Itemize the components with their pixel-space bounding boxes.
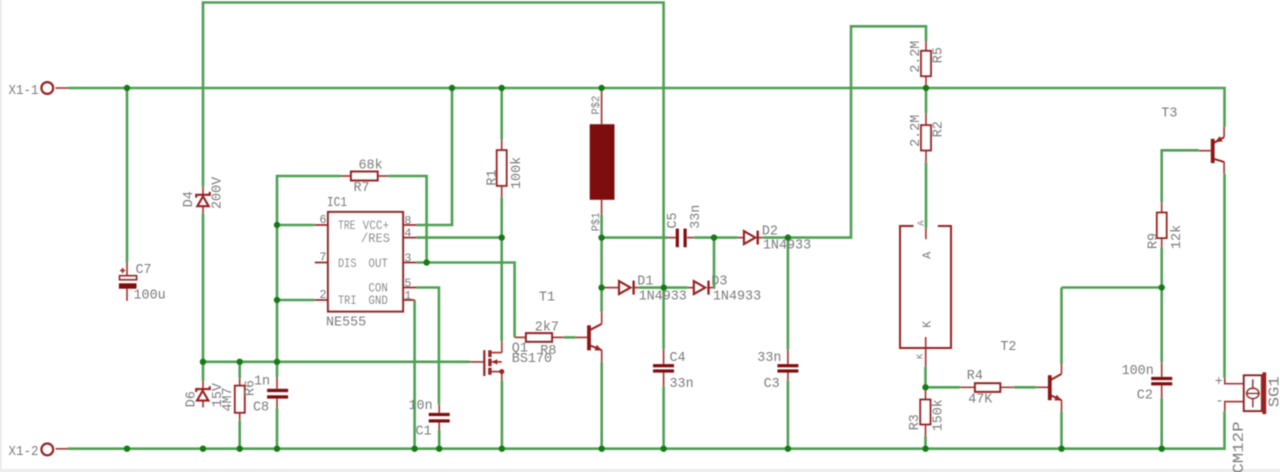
wire R9 leads xyxy=(1161,203,1163,247)
junction rail2-D6 xyxy=(200,446,206,452)
wire bottom rail X1-2 net xyxy=(68,411,1225,448)
junction TRI bus pin2 xyxy=(274,297,280,303)
wire R6 bottom to rail xyxy=(238,420,241,448)
junction arrester-R4-R3 xyxy=(922,384,928,390)
wire P$1 bottom node xyxy=(600,215,603,238)
junction timing node R6 xyxy=(237,359,243,365)
svg-text:7: 7 xyxy=(319,251,326,265)
wire D3 leads xyxy=(688,287,714,289)
wire T3 collector lead xyxy=(1223,162,1225,174)
wire T2 emitter to rail xyxy=(1060,412,1063,449)
wire T2 collector up xyxy=(1060,288,1063,365)
wire R8 leads xyxy=(515,336,564,338)
svg-text:33n: 33n xyxy=(670,377,694,392)
svg-text:F/CM12P: F/CM12P xyxy=(1231,422,1248,472)
wire C5 leads xyxy=(668,237,694,239)
wire timing node horizontal to Q1 gate xyxy=(203,360,470,363)
wire C4 leads xyxy=(663,349,665,387)
svg-text:100n: 100n xyxy=(1122,364,1154,379)
capacitor C2 plates xyxy=(1151,377,1172,386)
wire node to C5 left xyxy=(602,236,668,239)
junction R1 bottom /RES xyxy=(499,234,505,240)
wire T1 collector lead xyxy=(601,312,603,324)
svg-text:A: A xyxy=(916,220,926,226)
wire C8 leads xyxy=(276,377,278,408)
wire top loop D4 to D1/D3 node xyxy=(203,3,664,350)
svg-text:GND: GND xyxy=(368,294,388,308)
svg-text:C1: C1 xyxy=(416,425,432,440)
wire C2 leads xyxy=(1161,362,1163,398)
resistor R7 body xyxy=(351,172,378,181)
svg-text:T3: T3 xyxy=(1161,107,1177,122)
svg-text:C3: C3 xyxy=(764,377,780,392)
wire C7 top drop xyxy=(126,88,129,263)
op-amp/IC IC1 NE555 box xyxy=(328,212,403,312)
junction rail-R1 xyxy=(499,85,505,91)
wire R9 bottom to C2 top xyxy=(1160,247,1163,362)
wire R8 to T1 base xyxy=(564,336,576,339)
junction rail2-C2 xyxy=(1159,446,1165,452)
svg-text:-: - xyxy=(1216,395,1224,410)
wire SG1 minus lead xyxy=(1225,402,1244,412)
svg-text:D4: D4 xyxy=(182,191,197,207)
svg-text:+: + xyxy=(1215,375,1223,390)
diode D1 xyxy=(619,281,634,295)
resistor R6 body xyxy=(235,386,245,413)
connector pad X1-2 xyxy=(41,444,53,456)
junction rail-C7 xyxy=(124,85,130,91)
wire T2 emitter lead xyxy=(1061,400,1063,411)
svg-text:NE555: NE555 xyxy=(326,316,366,331)
wire node to T1 collector xyxy=(600,238,603,312)
wire rail to IC1 pin 8 xyxy=(417,88,453,225)
svg-text:VCC+: VCC+ xyxy=(363,219,390,233)
wire Q1 source lead xyxy=(501,372,503,381)
IC1 pin stubs right (8,4,3,5,1) xyxy=(403,225,417,300)
wire R7 right down to OUT xyxy=(388,176,427,263)
wire R1 leads xyxy=(501,140,503,198)
svg-text:2.2M: 2.2M xyxy=(909,41,924,73)
wire R3 leads xyxy=(925,388,927,436)
junction rail2-T1 emitter xyxy=(599,446,605,452)
svg-text:C7: C7 xyxy=(136,263,152,278)
wire D4 to D6 vertical xyxy=(202,214,205,382)
svg-text:47K: 47K xyxy=(968,393,993,408)
capacitor C4 plates xyxy=(653,364,674,373)
transistor T3 pnp xyxy=(1213,136,1224,163)
junction D1-D3 node xyxy=(661,284,667,290)
junction TRE bus pin6 xyxy=(274,222,280,228)
wire T3 base stub xyxy=(1199,150,1211,152)
wire R6 top stub xyxy=(238,362,241,378)
junction rail2-GND pin1 xyxy=(411,446,417,452)
svg-text:OUT: OUT xyxy=(368,257,388,271)
svg-text:X1-1: X1-1 xyxy=(9,84,39,99)
junction P$1-C5 node xyxy=(598,234,604,240)
zener diode D6 xyxy=(196,386,210,400)
junction rail2-Q1 source xyxy=(499,446,505,452)
page bottom edge band xyxy=(0,469,1280,472)
svg-text:33n: 33n xyxy=(757,351,781,366)
svg-text:IC1: IC1 xyxy=(327,196,347,211)
svg-text:/RES: /RES xyxy=(361,232,390,246)
connector pad X1-1 xyxy=(41,82,53,94)
buzzer SG1 body xyxy=(1244,372,1266,414)
wire pin 1 GND to rail xyxy=(413,300,416,449)
wire R6 leads xyxy=(239,378,241,420)
svg-text:C2: C2 xyxy=(1137,389,1153,404)
transistor T2 npn xyxy=(1050,374,1062,401)
svg-text:K: K xyxy=(916,353,926,359)
resistor R9 body xyxy=(1157,213,1167,238)
wire C1 leads xyxy=(438,405,440,430)
svg-text:X1-2: X1-2 xyxy=(9,445,39,460)
svg-text:R1: R1 xyxy=(485,170,500,186)
svg-text:P$1: P$1 xyxy=(591,212,603,231)
junction R7-OUT xyxy=(423,259,429,265)
wire T1 base stub xyxy=(576,336,588,338)
svg-text:12k: 12k xyxy=(1170,225,1185,249)
svg-text:150k: 150k xyxy=(931,399,946,431)
resistor R5 body xyxy=(921,51,931,76)
svg-text:3: 3 xyxy=(404,251,411,265)
svg-text:10n: 10n xyxy=(409,399,433,414)
wire pin 4 /RES to R1 bottom node xyxy=(417,236,502,239)
svg-text:R9: R9 xyxy=(1147,233,1162,249)
junction rail2-C7 xyxy=(124,446,130,452)
zener diode D4 xyxy=(196,192,210,206)
svg-text:C8: C8 xyxy=(253,401,269,416)
svg-text:1N4933: 1N4933 xyxy=(763,239,811,254)
resistor R1 body xyxy=(497,150,507,186)
wire C3 leads xyxy=(787,350,789,381)
wire arrester cathode pin xyxy=(925,337,927,367)
svg-text:4M7: 4M7 xyxy=(221,387,236,411)
wire P$1 bottom lead xyxy=(601,200,603,215)
wire X1-2 pad stub xyxy=(56,448,68,450)
svg-text:SG1: SG1 xyxy=(1266,376,1280,407)
svg-text:TRI: TRI xyxy=(338,294,357,308)
wire D2 leads xyxy=(738,237,763,239)
junction rail2-C3 xyxy=(785,446,791,452)
wire C8 bottom to rail xyxy=(276,408,279,449)
svg-text:T2: T2 xyxy=(1000,340,1016,355)
wire Q1 gate lead xyxy=(470,361,483,363)
transistor Q1 BS170 mosfet xyxy=(484,350,504,376)
wire R4 right to T2 base xyxy=(1014,386,1036,389)
junction D2-C3 node xyxy=(785,234,791,240)
wire T2 base stub xyxy=(1036,386,1048,388)
svg-text:C5: C5 xyxy=(666,212,681,228)
svg-text:33n: 33n xyxy=(689,205,704,229)
wire R5 bottom to rail crossing xyxy=(925,88,928,113)
svg-text:R4: R4 xyxy=(967,369,983,384)
diode D2 xyxy=(744,231,758,245)
svg-text:K: K xyxy=(921,320,935,328)
svg-text:200V: 200V xyxy=(210,177,225,209)
page left edge shading xyxy=(0,0,2,472)
wire arrester K to node xyxy=(924,367,927,388)
svg-text:T1: T1 xyxy=(539,291,555,306)
svg-text:100k: 100k xyxy=(510,157,525,189)
resistor R4 body xyxy=(975,383,1000,392)
wire R4 leads xyxy=(960,386,1014,388)
junction rail-R5R2 xyxy=(923,85,929,91)
svg-text:C4: C4 xyxy=(670,351,686,366)
svg-text:2k7: 2k7 xyxy=(535,320,559,335)
junction D1 anode node xyxy=(598,284,604,290)
wire D3 branch vertical xyxy=(712,238,715,288)
wire C3 bottom to rail xyxy=(787,381,790,449)
wire T2 collector node to R9 node xyxy=(1062,286,1162,289)
wire to IC1 pin 6 xyxy=(277,224,315,227)
wire R7 leads xyxy=(341,175,388,177)
wire C2 bottom to rail xyxy=(1160,398,1163,449)
svg-text:100u: 100u xyxy=(134,289,166,304)
capacitor C7 polarized plates xyxy=(119,268,137,289)
svg-text:1N4933: 1N4933 xyxy=(713,290,761,305)
junction rail-pin8 xyxy=(449,85,455,91)
svg-text:R2: R2 xyxy=(931,121,946,137)
wire D6 leads xyxy=(202,381,204,407)
wire T1 emitter to rail xyxy=(600,362,603,449)
svg-text:D2: D2 xyxy=(762,225,778,240)
svg-text:6: 6 xyxy=(319,213,326,227)
wire R2 bottom into arrester box xyxy=(925,162,928,228)
svg-text:2: 2 xyxy=(319,288,326,302)
wire C7 leads xyxy=(126,263,128,301)
wire C4 bottom to rail xyxy=(662,387,665,449)
svg-text:R3: R3 xyxy=(908,414,923,430)
wire T3 base to R9 top xyxy=(1162,150,1199,202)
wire pin 5 CON to C1 xyxy=(417,288,439,405)
wire OUT pin 3 to R8 xyxy=(417,263,515,338)
wire R5 leads xyxy=(925,42,927,89)
capacitor C3 plates xyxy=(777,364,798,373)
svg-text:DIS: DIS xyxy=(338,257,357,271)
junction timing node C8 xyxy=(274,359,280,365)
wire T2 collector lead xyxy=(1061,364,1063,374)
svg-text:4: 4 xyxy=(404,226,411,240)
svg-text:R5: R5 xyxy=(931,47,946,63)
wire R3 bottom to rail xyxy=(924,436,927,449)
wire T1 emitter lead xyxy=(601,350,603,362)
junction rail2-R3 xyxy=(922,446,928,452)
svg-text:R8: R8 xyxy=(540,344,556,359)
svg-text:A: A xyxy=(921,251,935,259)
wire D1 leads xyxy=(604,287,639,289)
wire node to C3 top xyxy=(787,238,790,350)
junction rail2-C1 xyxy=(436,446,442,452)
svg-text:1n: 1n xyxy=(254,374,270,389)
surge arrester box body xyxy=(900,226,951,348)
capacitor C1 plates xyxy=(429,413,450,423)
junction rail2-R6 xyxy=(237,446,243,452)
junction C5-D2-D3 node xyxy=(711,234,717,240)
wire R2 leads xyxy=(925,113,927,162)
resistor R3 body xyxy=(920,400,930,425)
junction rail2-T2 emitter xyxy=(1058,446,1064,452)
wire arrester anode pin xyxy=(925,228,927,239)
junction timing node D4D6 xyxy=(200,359,206,365)
junction rail-P$2 xyxy=(598,85,604,91)
svg-text:1N4933: 1N4933 xyxy=(639,290,687,305)
resistor R2 body xyxy=(921,125,931,150)
svg-text:D6: D6 xyxy=(185,391,200,407)
resistor R8 body xyxy=(526,333,552,342)
junction rail2-C8 xyxy=(274,446,280,452)
wire P$2 top lead xyxy=(601,89,603,124)
wire SG1 plus lead xyxy=(1225,378,1244,384)
wire C5 right to D2 xyxy=(694,236,737,239)
junction rail2-C4 xyxy=(660,446,666,452)
lamp/primary P$ filled body xyxy=(590,124,615,200)
wire D2 cathode loop to R5 top xyxy=(763,26,926,237)
svg-text:R7: R7 xyxy=(354,181,370,196)
IC1 pin stubs left (6,7,2) xyxy=(315,225,328,300)
wire C1 bottom to rail xyxy=(438,430,441,449)
wire Q1 drain lead xyxy=(501,341,503,353)
wire D1 cathode to D3 anode xyxy=(639,286,688,289)
diode D3 xyxy=(694,281,709,295)
wire T3 emitter lead xyxy=(1223,127,1225,137)
svg-text:TRE: TRE xyxy=(338,219,356,233)
svg-text:D1: D1 xyxy=(637,274,653,289)
junction R9-T2 collector xyxy=(1159,284,1165,290)
wire to IC1 pin 2 xyxy=(277,299,315,302)
wire rail to R1 top xyxy=(500,88,503,140)
wire R7 left / TRE-TRI bus xyxy=(277,176,341,377)
svg-text:2.2M: 2.2M xyxy=(909,115,924,147)
svg-text:D3: D3 xyxy=(711,274,727,289)
wire T3 collector to SG1 plus xyxy=(1223,174,1226,378)
capacitor C5 plates xyxy=(676,229,687,248)
wire top rail X1-1 net xyxy=(68,88,1225,127)
svg-text:1: 1 xyxy=(404,289,411,303)
wire X1-1 pad stub xyxy=(56,87,68,89)
svg-text:P$2: P$2 xyxy=(591,96,603,115)
svg-text:68k: 68k xyxy=(359,159,383,174)
wire D4 leads xyxy=(202,187,204,214)
capacitor C8 plates xyxy=(267,389,288,399)
wire R1 bottom to Q1 drain xyxy=(500,198,503,342)
transistor T1 npn xyxy=(589,324,602,351)
wire node to R4 left xyxy=(926,386,961,389)
wire Q1 source to rail xyxy=(501,381,504,449)
